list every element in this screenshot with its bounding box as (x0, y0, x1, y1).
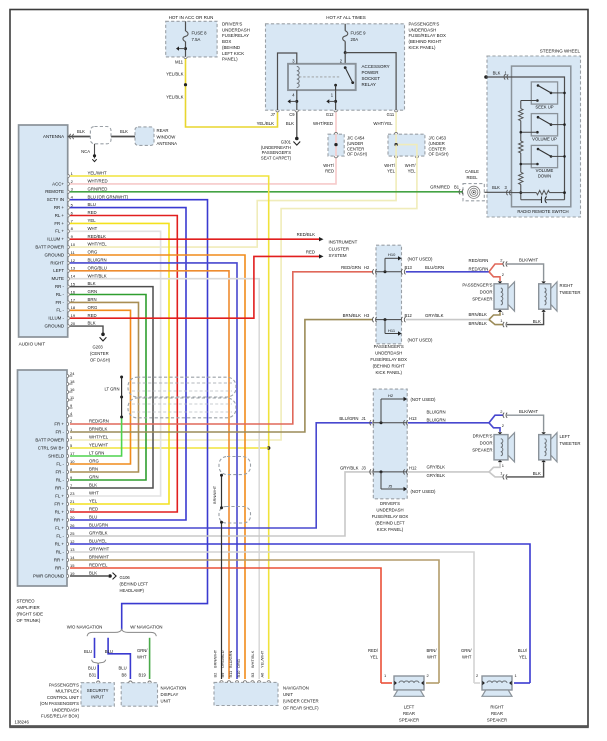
svg-text:HEADLAMP): HEADLAMP) (120, 588, 145, 593)
svg-text:RED: RED (88, 313, 97, 318)
svg-text:LEFT: LEFT (53, 268, 64, 273)
svg-text:SYSTEM: SYSTEM (329, 253, 347, 258)
wire WHT/RED G12 to audio pin 2 (70, 112, 336, 184)
svg-text:LT GRN: LT GRN (105, 386, 120, 391)
svg-text:BLU/GRN: BLU/GRN (89, 523, 108, 528)
wire BLU/GRN B13 to split (406, 271, 489, 273)
svg-text:W/O NAVIGATION: W/O NAVIGATION (67, 625, 103, 630)
svg-text:ORG/BLU: ORG/BLU (220, 650, 225, 668)
wire BLU/GRN H13 to split (408, 422, 489, 424)
svg-text:22: 22 (70, 507, 75, 512)
svg-text:PWR GROUND: PWR GROUND (33, 573, 64, 578)
svg-text:LT GRN: LT GRN (89, 451, 104, 456)
svg-text:BLU: BLU (89, 515, 97, 520)
svg-text:RL -: RL - (56, 549, 65, 554)
svg-text:FUSE 9: FUSE 9 (351, 31, 367, 36)
svg-text:RED: RED (88, 210, 97, 215)
svg-text:BLU/GRN: BLU/GRN (427, 409, 446, 414)
splice on YEL/BLK (184, 83, 187, 86)
svg-text:ILLUM -: ILLUM - (48, 316, 64, 321)
svg-text:WHT/RED: WHT/RED (313, 121, 333, 126)
svg-text:REAR: REAR (403, 711, 415, 716)
svg-text:RR +: RR + (54, 557, 65, 562)
svg-text:FR -: FR - (55, 300, 64, 305)
wire amp pin17 LT GRN shield drain (70, 417, 122, 456)
svg-text:ORG: ORG (88, 250, 98, 255)
relay switch contact (344, 66, 347, 69)
connector H12 (403, 469, 407, 474)
svg-text:BRN: BRN (88, 297, 97, 302)
svg-text:OF DASH): OF DASH) (429, 152, 450, 157)
wire GRY/BLK B12 to split (406, 319, 489, 321)
svg-text:18: 18 (70, 379, 75, 384)
svg-text:BRN/WHT: BRN/WHT (212, 485, 217, 504)
svg-text:PASSENGER'S: PASSENGER'S (49, 683, 79, 688)
svg-text:BLU: BLU (105, 649, 113, 654)
svg-text:16: 16 (70, 387, 75, 392)
svg-text:A6: A6 (260, 673, 265, 678)
svg-text:SEAT CARPET): SEAT CARPET) (261, 155, 292, 160)
svg-text:17: 17 (70, 451, 75, 456)
svg-text:STEERING WHEEL: STEERING WHEEL (540, 49, 581, 54)
svg-text:GRY/WHT: GRY/WHT (89, 547, 110, 552)
svg-text:KICK PANEL): KICK PANEL) (377, 527, 404, 532)
svg-text:B3: B3 (250, 673, 255, 678)
svg-text:(BEHIND: (BEHIND (222, 45, 240, 50)
svg-text:ORG: ORG (236, 659, 241, 668)
svg-text:RED/BLK: RED/BLK (88, 234, 107, 239)
navigation unit box (214, 682, 278, 705)
svg-text:TWEETER: TWEETER (560, 290, 581, 295)
svg-text:MUTE: MUTE (52, 276, 65, 281)
svg-text:B9: B9 (220, 673, 225, 678)
svg-text:RL +: RL + (55, 213, 65, 218)
radio remote switch box (512, 66, 571, 207)
svg-text:FL +: FL + (55, 229, 64, 234)
svg-text:(NOT USED): (NOT USED) (408, 256, 434, 261)
svg-text:13: 13 (70, 547, 75, 552)
wire audio pin1 YEL/WHT to amp pin5 and nav A6 (70, 176, 269, 679)
switch internals and buses (537, 84, 540, 87)
svg-text:VOLUME UP: VOLUME UP (532, 137, 557, 142)
svg-text:SHIELD: SHIELD (48, 453, 64, 458)
svg-text:(UNDER CENTER: (UNDER CENTER (283, 699, 319, 704)
svg-text:RED/GRN: RED/GRN (89, 419, 109, 424)
wire amp pin12 BLU/YEL to right rear speaker (70, 544, 530, 683)
svg-text:DRIVER'S: DRIVER'S (473, 433, 493, 438)
svg-text:GROUND: GROUND (44, 252, 64, 257)
svg-text:FR +: FR + (54, 501, 64, 506)
wire fuse9 to relay pin 2 (344, 53, 346, 64)
svg-text:(BEHIND LEFT: (BEHIND LEFT (375, 521, 405, 526)
svg-text:RADIO REMOTE SWITCH: RADIO REMOTE SWITCH (517, 209, 568, 214)
wire BLK 3 cable reel to switch (484, 191, 511, 193)
passenger's underdash fuse/relay box (relay) (266, 24, 405, 110)
shielded twisted pair symbol lower (nav cables) (219, 457, 251, 475)
NCA stub (94, 144, 96, 159)
svg-text:RIGHT: RIGHT (50, 260, 64, 265)
svg-text:OF DASH): OF DASH) (90, 358, 111, 363)
wire YEL/BLK fuse8 to J7 (186, 59, 278, 127)
connector B12 (401, 317, 405, 322)
svg-text:ANTENNA: ANTENNA (157, 141, 178, 146)
svg-text:20A: 20A (351, 37, 359, 42)
svg-text:PASSENGER'S: PASSENGER'S (374, 344, 404, 349)
svg-text:RED/BLK: RED/BLK (297, 232, 316, 237)
wire audio pin19 RED to instrument cluster (70, 256, 319, 318)
svg-text:YEL: YEL (387, 168, 396, 173)
svg-text:B31: B31 (89, 673, 97, 678)
internal wire H3 to B12 with H11 branch (376, 319, 402, 321)
bottom resistor row of remote switch (519, 191, 522, 194)
svg-text:DISPLAY: DISPLAY (161, 692, 179, 697)
svg-text:WHT/BLK: WHT/BLK (88, 273, 107, 278)
split brace for navigation option (87, 629, 156, 636)
svg-text:SPEAKER: SPEAKER (472, 447, 492, 452)
svg-text:WHT: WHT (88, 226, 98, 231)
svg-text:FR -: FR - (55, 429, 64, 434)
svg-text:BLK: BLK (89, 571, 97, 576)
svg-text:CTRL SW B+: CTRL SW B+ (38, 445, 65, 450)
wire audio pin17 BRN to amp pin8 (70, 302, 139, 472)
svg-text:UNDERDASH: UNDERDASH (375, 351, 402, 356)
volume up switch (531, 114, 557, 136)
svg-text:YEL/WHT: YEL/WHT (89, 443, 108, 448)
svg-text:RIGHT: RIGHT (490, 705, 504, 710)
svg-text:YEL: YEL (88, 218, 97, 223)
svg-text:20: 20 (70, 515, 75, 520)
svg-text:25: 25 (70, 531, 75, 536)
svg-text:BLK/WHT: BLK/WHT (519, 409, 538, 414)
svg-text:FUSE 8: FUSE 8 (192, 31, 208, 36)
svg-text:FR -: FR - (55, 469, 64, 474)
svg-text:RED: RED (89, 507, 98, 512)
wire WHT/YEL to amp pin 3 (70, 156, 417, 440)
svg-text:SPEAKER: SPEAKER (487, 718, 507, 723)
svg-text:FUSE/RELAY BOX): FUSE/RELAY BOX) (41, 714, 80, 719)
svg-text:FL -: FL - (56, 461, 64, 466)
relay pin 1 wire to G12 (335, 90, 337, 110)
wire GRY/BLK split to driver door speaker pin 1 (489, 462, 500, 472)
svg-text:B10: B10 (236, 670, 241, 678)
junction fuse 9 output (344, 51, 347, 54)
svg-text:BRN: BRN (89, 467, 98, 472)
svg-text:BLK: BLK (88, 281, 96, 286)
wire to G11 inside box (345, 53, 396, 111)
svg-text:RELAY: RELAY (362, 82, 376, 87)
seek up switch (531, 82, 557, 104)
wire WHT/YEL to audio pin 10 (70, 145, 396, 248)
svg-text:PASSENGER'S: PASSENGER'S (462, 283, 492, 288)
svg-text:RED/GRN: RED/GRN (469, 258, 489, 263)
wire audio pin15 BLK to amp pin7 (70, 287, 153, 488)
relay pin 4 wire to C9 (296, 90, 298, 110)
svg-text:H2: H2 (388, 393, 394, 398)
svg-text:(NOT USED): (NOT USED) (408, 338, 434, 343)
svg-text:BLU/GRN: BLU/GRN (88, 258, 107, 263)
steering wheel boundary box (487, 56, 581, 217)
left resistor bus of remote switch (520, 101, 522, 109)
svg-text:13: 13 (71, 266, 76, 271)
connector M11 (184, 57, 187, 59)
svg-text:G301: G301 (281, 140, 292, 145)
svg-text:BLU: BLU (88, 202, 96, 207)
svg-text:RED/: RED/ (368, 648, 379, 653)
svg-text:DRIVER'S: DRIVER'S (222, 22, 242, 27)
svg-text:G11: G11 (387, 112, 395, 117)
svg-text:ORG: ORG (89, 459, 99, 464)
ground G301 (295, 137, 299, 141)
svg-text:STEREO: STEREO (17, 599, 36, 604)
wire BRN/BLK split to right tweeter via BLK (489, 320, 503, 325)
wire GRN/WHT to nav display B19 (149, 638, 151, 679)
svg-text:GROUND: GROUND (44, 324, 64, 329)
svg-text:BLU/GRN: BLU/GRN (425, 265, 444, 270)
svg-text:B12: B12 (405, 313, 413, 318)
svg-text:UNDERDASH: UNDERDASH (409, 27, 437, 32)
svg-text:W/ NAVIGATION: W/ NAVIGATION (130, 625, 162, 630)
svg-text:(CENTER: (CENTER (90, 351, 109, 356)
svg-text:FUSE/RELAY: FUSE/RELAY (222, 33, 249, 38)
svg-text:YEL/WHT: YEL/WHT (88, 171, 107, 176)
svg-text:INPUT: INPUT (91, 695, 104, 700)
svg-text:BLU: BLU (119, 666, 127, 671)
shield drain BRN/WHT to nav B2 (221, 475, 223, 508)
rear window antenna box (135, 127, 154, 145)
svg-text:RED: RED (306, 249, 315, 254)
svg-text:(UNDER: (UNDER (429, 141, 445, 146)
svg-text:H3: H3 (364, 313, 370, 318)
wire BLU/GRN split to left tweeter via BLK/WHT (489, 415, 503, 423)
svg-text:(NOT USED): (NOT USED) (411, 397, 437, 402)
svg-text:GRN/RED: GRN/RED (430, 184, 450, 189)
wire amp pin15 RED/YEL to left rear speaker (70, 568, 381, 683)
svg-text:12: 12 (71, 258, 76, 263)
svg-text:AMPLIFIER: AMPLIFIER (17, 605, 40, 610)
svg-text:BLU: BLU (84, 649, 92, 654)
svg-text:G12: G12 (326, 112, 334, 117)
wire audio pin7 YEL to amp pin21 (70, 223, 169, 504)
svg-text:BLK: BLK (286, 121, 294, 126)
wire amp pin13 GRY/WHT to right rear speaker (70, 552, 474, 683)
wire audio pin16 GRN to amp pin9 (70, 295, 146, 481)
connector J1 (370, 420, 374, 425)
svg-text:ORG/BLU: ORG/BLU (88, 265, 107, 270)
svg-text:FL +: FL + (55, 493, 64, 498)
wire audio pin8 WHT to amp pin23 (70, 231, 161, 496)
driver's underdash fuse/relay box (fuse 8) (166, 21, 217, 57)
svg-text:ILLUM +: ILLUM + (47, 237, 64, 242)
svg-text:H12: H12 (409, 465, 417, 470)
svg-text:VOLUME: VOLUME (536, 168, 554, 173)
svg-text:TWEETER: TWEETER (560, 441, 581, 446)
svg-text:BRN/BLK: BRN/BLK (469, 321, 488, 326)
svg-text:GRY/BLK: GRY/BLK (89, 531, 108, 536)
svg-text:GRN/: GRN/ (137, 648, 148, 653)
svg-text:BLU/GRN: BLU/GRN (339, 416, 358, 421)
svg-text:(ON PASSENGER'S: (ON PASSENGER'S (40, 701, 79, 706)
svg-text:FUSE/RELAY BOX: FUSE/RELAY BOX (409, 33, 446, 38)
right tweeter SP2 (539, 284, 551, 309)
svg-text:B11: B11 (228, 671, 233, 678)
svg-text:CENTER: CENTER (429, 146, 446, 151)
connector H3 (372, 317, 376, 322)
svg-text:RL -: RL - (56, 477, 65, 482)
svg-text:UNDERDASH: UNDERDASH (52, 707, 79, 712)
wire audio pin9 RED/BLK to instrument cluster (70, 238, 319, 240)
fuse F9 20A (344, 24, 346, 31)
svg-text:WHT/YEL: WHT/YEL (88, 242, 108, 247)
wire BLK 1 into remote switch (484, 75, 488, 79)
svg-text:23: 23 (70, 491, 75, 496)
connector C9 (295, 110, 298, 112)
wire audio pin12 BLU/GRN to nav B11 (70, 263, 237, 679)
svg-text:J/C C453: J/C C453 (429, 136, 447, 141)
svg-text:BATT POWER: BATT POWER (35, 245, 64, 250)
junction connector C454 (328, 134, 344, 156)
wire amp pin14 BRN/WHT to left rear speaker (70, 560, 439, 683)
svg-text:YEL/BLK: YEL/BLK (257, 121, 275, 126)
passenger's multiplex control unit - security input box (81, 683, 114, 707)
svg-text:HOT AT ALL TIMES: HOT AT ALL TIMES (326, 15, 366, 20)
svg-text:B19: B19 (139, 673, 147, 678)
svg-text:(UNDERNEATH: (UNDERNEATH (261, 145, 291, 150)
svg-text:SOCKET: SOCKET (362, 76, 381, 81)
wire GRY/BLK H12 to split (408, 471, 489, 473)
svg-text:REEL: REEL (467, 175, 479, 180)
svg-text:LEFT KICK: LEFT KICK (222, 51, 244, 56)
svg-text:WHT/: WHT/ (384, 163, 396, 168)
wire amp pin5 YEL/WHT branch (70, 447, 269, 449)
svg-text:SCTY IN: SCTY IN (47, 197, 64, 202)
svg-text:GRY/BLK: GRY/BLK (340, 465, 359, 470)
svg-text:RED: RED (325, 168, 334, 173)
svg-text:RR +: RR + (54, 205, 65, 210)
svg-text:DOOR: DOOR (480, 290, 493, 295)
wire amp pin1 BRN/BLK to passenger box H3 (70, 320, 373, 432)
svg-text:WHT/RED: WHT/RED (88, 179, 108, 184)
svg-text:J7: J7 (271, 112, 276, 117)
wire audio pin18 ORG to amp pin10 (70, 310, 131, 464)
svg-text:WHT/: WHT/ (323, 163, 335, 168)
svg-text:FUSE/RELAY BOX: FUSE/RELAY BOX (370, 357, 407, 362)
svg-text:POWER: POWER (362, 70, 380, 75)
svg-text:B8: B8 (122, 673, 128, 678)
svg-text:G203: G203 (93, 345, 104, 350)
wire BLU w/ navigation branch to nav display B8 (108, 638, 130, 679)
svg-text:UNIT: UNIT (161, 699, 171, 704)
svg-text:(RIGHT SIDE: (RIGHT SIDE (17, 612, 44, 617)
internal wire J1 to H13 with H2 branch (373, 422, 407, 424)
svg-text:PANEL): PANEL) (222, 57, 238, 62)
stereo amplifier box U-amp (18, 370, 68, 586)
svg-text:REMOTE: REMOTE (45, 189, 64, 194)
svg-text:15: 15 (71, 282, 76, 287)
svg-text:GRY/BLK: GRY/BLK (427, 465, 446, 470)
svg-text:LEFT: LEFT (560, 434, 571, 439)
connector H2 (372, 269, 376, 274)
svg-text:BRN/WHT: BRN/WHT (212, 649, 217, 668)
wire RED/GRN split to right tweeter via BLK/WHT (489, 264, 503, 272)
wire audio pin11 ORG to nav B10 (70, 255, 245, 679)
svg-text:BRN/: BRN/ (426, 648, 437, 653)
svg-text:RR +: RR + (54, 517, 65, 522)
wire audio pin14 WHT/BLK to nav B3 (70, 279, 259, 679)
svg-text:HOT IN ACC OR RUN: HOT IN ACC OR RUN (169, 15, 214, 20)
svg-text:DOOR: DOOR (480, 440, 493, 445)
svg-text:WINDOW: WINDOW (157, 134, 177, 139)
svg-text:17: 17 (71, 297, 76, 302)
svg-text:CENTER: CENTER (347, 146, 364, 151)
ground G203 (101, 333, 105, 337)
svg-text:OF REAR SHELF): OF REAR SHELF) (283, 705, 319, 710)
svg-text:C9: C9 (289, 112, 295, 117)
svg-text:BATT POWER: BATT POWER (35, 437, 64, 442)
wire audio pin13 ORG/BLU to nav B9 (70, 271, 229, 679)
wire audio pin5 BLU to amp pin20 (70, 208, 186, 520)
antenna inline connector box (90, 127, 111, 144)
svg-text:BLU/GRN: BLU/GRN (427, 417, 446, 422)
svg-text:BLU (OR GRN/WHT): BLU (OR GRN/WHT) (88, 194, 129, 199)
svg-text:RR -: RR - (55, 485, 65, 490)
svg-text:(BEHIND RIGHT: (BEHIND RIGHT (409, 39, 442, 44)
svg-text:KICK PANEL): KICK PANEL) (375, 370, 402, 375)
svg-text:LEFT: LEFT (404, 705, 415, 710)
passenger's underdash fuse/relay box (speaker feed) (376, 245, 402, 344)
svg-text:B2: B2 (212, 673, 217, 678)
relay coil (297, 67, 299, 88)
svg-text:BLK: BLK (533, 471, 541, 476)
svg-text:GRN/: GRN/ (461, 648, 472, 653)
wire BLK C9 to ground (296, 112, 298, 137)
svg-text:RL +: RL + (55, 541, 65, 546)
svg-text:ORG: ORG (88, 305, 98, 310)
svg-text:19: 19 (71, 313, 76, 318)
svg-text:J1: J1 (362, 416, 367, 421)
svg-text:DOWN: DOWN (538, 174, 551, 179)
wire amp pin19 BLK to ground G106 (70, 575, 108, 577)
wire RED/GRN split to passenger door speaker pin 2 (489, 272, 500, 281)
svg-text:20: 20 (71, 321, 76, 326)
svg-text:UNIT: UNIT (283, 692, 293, 697)
driver's door speaker SP3 (494, 435, 508, 460)
svg-text:SPEAKER: SPEAKER (399, 718, 419, 723)
svg-text:ANTENNA: ANTENNA (43, 134, 64, 139)
wire GRY/BLK split to left tweeter via BLK (489, 472, 503, 477)
shielded twisted pair symbol upper (128, 377, 236, 397)
svg-text:(NOT USED): (NOT USED) (411, 489, 437, 494)
svg-text:BLU/: BLU/ (518, 648, 528, 653)
svg-text:BLK: BLK (77, 129, 85, 134)
svg-text:BLU/YEL: BLU/YEL (89, 539, 107, 544)
svg-text:SECURITY: SECURITY (87, 688, 109, 693)
svg-text:INSTRUMENT: INSTRUMENT (329, 240, 358, 245)
merge brace to security input (92, 660, 106, 665)
accessory power socket relay U1 (288, 64, 356, 90)
svg-text:BLK: BLK (493, 70, 501, 75)
splice YEL/WHT at amp CTRL row (267, 446, 270, 449)
svg-text:WHT/YEL: WHT/YEL (373, 121, 393, 126)
svg-text:BRN/BLK: BRN/BLK (343, 313, 362, 318)
svg-text:GRN: GRN (89, 475, 99, 480)
svg-text:BLU/GRN: BLU/GRN (228, 651, 233, 668)
svg-text:CONTROL UNIT: CONTROL UNIT (47, 695, 79, 700)
svg-text:H11: H11 (388, 328, 396, 333)
svg-text:10: 10 (70, 459, 75, 464)
amplifier pin bumps, numbers and labels (67, 374, 69, 377)
svg-text:SPEAKER: SPEAKER (472, 297, 492, 302)
svg-text:WHT: WHT (89, 491, 99, 496)
